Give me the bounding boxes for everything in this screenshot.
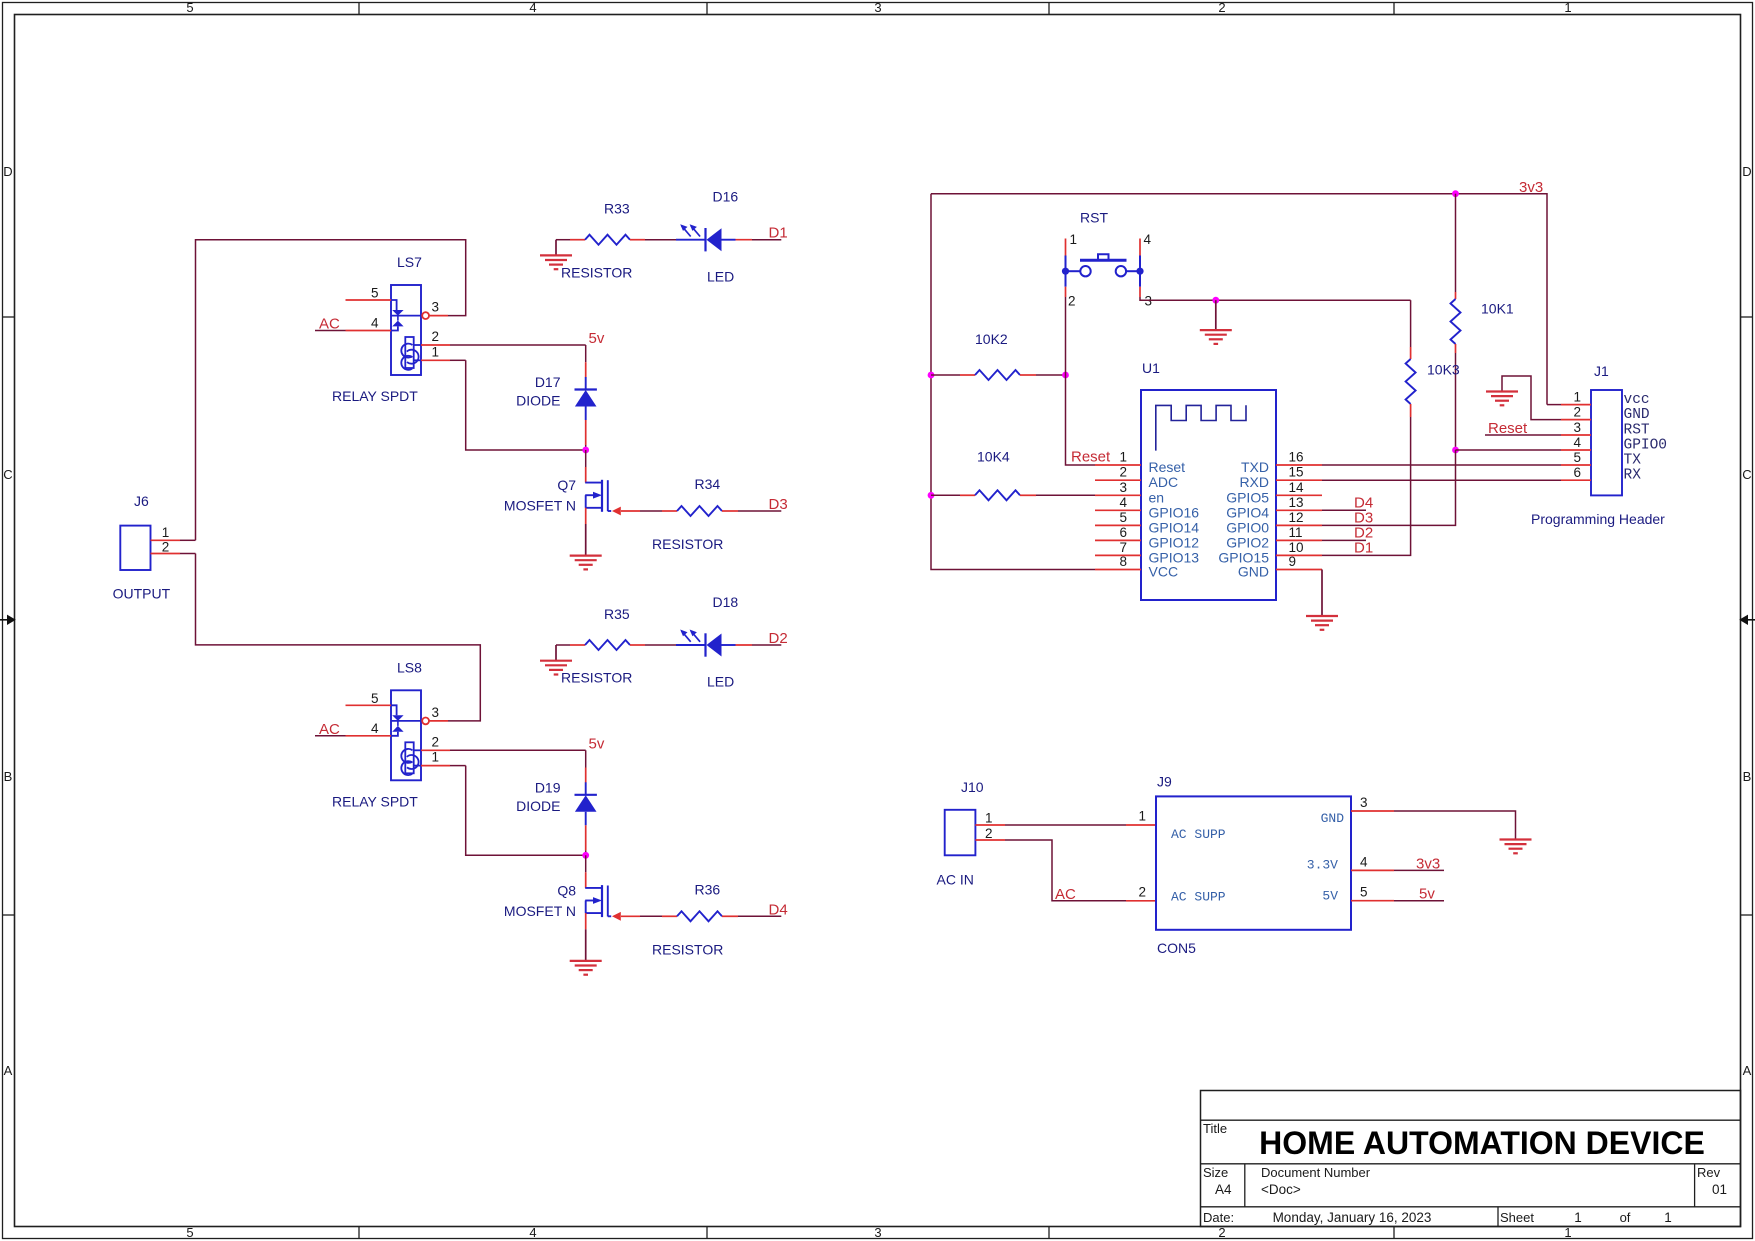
- svg-text:3: 3: [874, 0, 881, 15]
- svg-text:3: 3: [1119, 480, 1127, 495]
- svg-text:GPIO0: GPIO0: [1226, 519, 1269, 535]
- svg-text:Reset: Reset: [1149, 459, 1186, 475]
- svg-text:15: 15: [1289, 465, 1304, 480]
- svg-text:RESISTOR: RESISTOR: [561, 670, 632, 686]
- svg-text:A: A: [1743, 1063, 1752, 1078]
- svg-text:C: C: [3, 467, 12, 482]
- svg-text:4: 4: [529, 1225, 536, 1240]
- svg-text:U1: U1: [1142, 360, 1160, 376]
- svg-text:10K4: 10K4: [977, 449, 1010, 465]
- svg-text:5v: 5v: [589, 735, 605, 752]
- svg-text:B: B: [1743, 769, 1752, 784]
- svg-text:AC SUPP: AC SUPP: [1171, 890, 1226, 905]
- svg-text:3: 3: [1573, 420, 1581, 435]
- svg-text:MOSFET N: MOSFET N: [504, 498, 576, 514]
- svg-text:ADC: ADC: [1149, 474, 1179, 490]
- svg-text:Q8: Q8: [557, 882, 576, 898]
- svg-text:Reset: Reset: [1488, 420, 1528, 437]
- svg-text:8: 8: [1119, 554, 1127, 569]
- svg-text:R35: R35: [604, 606, 630, 622]
- svg-text:TX: TX: [1624, 453, 1642, 469]
- svg-text:D16: D16: [713, 189, 739, 205]
- svg-text:GND: GND: [1238, 564, 1269, 580]
- svg-text:3v3: 3v3: [1416, 855, 1440, 872]
- svg-text:2: 2: [432, 734, 440, 749]
- svg-text:OUTPUT: OUTPUT: [113, 586, 171, 602]
- svg-text:5v: 5v: [589, 330, 605, 347]
- svg-text:1: 1: [1138, 809, 1146, 824]
- svg-text:01: 01: [1712, 1182, 1727, 1197]
- svg-text:5: 5: [371, 691, 379, 706]
- svg-text:HOME AUTOMATION DEVICE: HOME AUTOMATION DEVICE: [1259, 1125, 1705, 1161]
- svg-text:10K3: 10K3: [1427, 362, 1460, 378]
- svg-text:D1: D1: [1354, 540, 1373, 557]
- svg-text:RST: RST: [1080, 210, 1108, 226]
- svg-text:Sheet: Sheet: [1500, 1210, 1534, 1225]
- svg-text:5: 5: [1573, 450, 1581, 465]
- svg-text:4: 4: [1119, 495, 1127, 510]
- svg-text:GPIO16: GPIO16: [1149, 504, 1200, 520]
- svg-text:en: en: [1149, 489, 1165, 505]
- svg-text:of: of: [1620, 1210, 1631, 1225]
- svg-text:4: 4: [371, 721, 379, 736]
- svg-text:C: C: [1742, 467, 1751, 482]
- svg-text:A: A: [4, 1063, 13, 1078]
- svg-text:4: 4: [1360, 854, 1368, 869]
- svg-text:3: 3: [1145, 294, 1153, 309]
- svg-text:D19: D19: [535, 779, 561, 795]
- svg-text:DIODE: DIODE: [516, 798, 560, 814]
- svg-text:1: 1: [985, 811, 993, 826]
- svg-text:3: 3: [432, 300, 440, 315]
- svg-text:2: 2: [1119, 465, 1127, 480]
- svg-text:10K2: 10K2: [975, 331, 1008, 347]
- svg-text:GPIO5: GPIO5: [1226, 489, 1269, 505]
- svg-text:AC IN: AC IN: [937, 872, 974, 888]
- svg-text:3: 3: [874, 1225, 881, 1240]
- svg-text:1: 1: [432, 344, 440, 359]
- svg-text:RELAY SPDT: RELAY SPDT: [332, 793, 418, 809]
- svg-text:5v: 5v: [1419, 886, 1435, 903]
- svg-text:7: 7: [1119, 540, 1127, 555]
- svg-text:VCC: VCC: [1149, 564, 1179, 580]
- svg-text:2: 2: [1573, 405, 1581, 420]
- svg-text:2: 2: [1068, 294, 1076, 309]
- svg-text:6: 6: [1573, 465, 1581, 480]
- svg-text:CON5: CON5: [1157, 940, 1196, 956]
- svg-text:GPIO0: GPIO0: [1624, 438, 1668, 454]
- svg-text:RESISTOR: RESISTOR: [652, 941, 723, 957]
- svg-text:5V: 5V: [1322, 888, 1338, 903]
- svg-text:LS7: LS7: [397, 254, 422, 270]
- svg-text:GND: GND: [1321, 811, 1345, 826]
- svg-text:2: 2: [432, 329, 440, 344]
- svg-text:4: 4: [1573, 435, 1581, 450]
- svg-text:3: 3: [432, 705, 440, 720]
- svg-text:GPIO12: GPIO12: [1149, 534, 1200, 550]
- svg-text:D17: D17: [535, 374, 561, 390]
- svg-text:LED: LED: [707, 268, 734, 284]
- svg-text:B: B: [4, 769, 13, 784]
- svg-text:vcc: vcc: [1624, 392, 1650, 408]
- svg-text:R34: R34: [695, 476, 721, 492]
- svg-text:12: 12: [1289, 510, 1304, 525]
- svg-text:RX: RX: [1624, 468, 1642, 484]
- svg-text:13: 13: [1289, 495, 1304, 510]
- svg-text:MOSFET N: MOSFET N: [504, 903, 576, 919]
- svg-text:GPIO2: GPIO2: [1226, 534, 1269, 550]
- svg-text:1: 1: [432, 750, 440, 765]
- svg-text:1: 1: [1573, 390, 1581, 405]
- svg-text:RESISTOR: RESISTOR: [561, 264, 632, 280]
- svg-text:RST: RST: [1624, 423, 1650, 439]
- svg-text:14: 14: [1289, 480, 1305, 495]
- svg-text:Reset: Reset: [1071, 449, 1111, 466]
- svg-text:4: 4: [371, 316, 379, 331]
- svg-text:5: 5: [1119, 510, 1127, 525]
- svg-text:DIODE: DIODE: [516, 393, 560, 409]
- svg-text:R33: R33: [604, 201, 630, 217]
- svg-text:<Doc>: <Doc>: [1261, 1182, 1301, 1197]
- svg-text:RXD: RXD: [1239, 474, 1269, 490]
- svg-text:1: 1: [1574, 1210, 1582, 1225]
- svg-text:D2: D2: [769, 630, 788, 647]
- svg-text:D3: D3: [769, 496, 788, 513]
- svg-text:Size: Size: [1203, 1165, 1228, 1180]
- svg-text:3v3: 3v3: [1519, 179, 1543, 196]
- svg-text:3: 3: [1360, 795, 1368, 810]
- svg-text:R36: R36: [695, 881, 721, 897]
- svg-text:1: 1: [162, 525, 170, 540]
- svg-text:9: 9: [1289, 554, 1297, 569]
- svg-text:10: 10: [1289, 540, 1304, 555]
- svg-text:GND: GND: [1624, 407, 1650, 423]
- svg-text:D4: D4: [769, 901, 788, 918]
- svg-text:10K1: 10K1: [1481, 301, 1514, 317]
- svg-text:D: D: [1742, 164, 1751, 179]
- svg-text:LED: LED: [707, 674, 734, 690]
- svg-text:11: 11: [1289, 525, 1303, 540]
- svg-text:Programming Header: Programming Header: [1531, 511, 1665, 527]
- svg-text:2: 2: [1138, 884, 1146, 899]
- svg-text:J6: J6: [134, 493, 149, 509]
- svg-text:5: 5: [186, 1225, 193, 1240]
- svg-text:LS8: LS8: [397, 659, 422, 675]
- svg-text:GPIO14: GPIO14: [1149, 519, 1200, 535]
- svg-text:2: 2: [1218, 0, 1225, 15]
- svg-text:2: 2: [162, 540, 170, 555]
- svg-text:1: 1: [1119, 450, 1127, 465]
- svg-text:Q7: Q7: [557, 477, 576, 493]
- svg-text:D: D: [3, 164, 12, 179]
- svg-text:GPIO4: GPIO4: [1226, 504, 1269, 520]
- svg-text:Date:: Date:: [1203, 1210, 1234, 1225]
- svg-text:D18: D18: [713, 594, 739, 610]
- svg-text:J10: J10: [961, 779, 984, 795]
- svg-text:3.3V: 3.3V: [1307, 857, 1338, 872]
- svg-text:5: 5: [1360, 885, 1368, 900]
- svg-text:J9: J9: [1157, 774, 1172, 790]
- svg-text:D1: D1: [769, 225, 788, 242]
- svg-text:2: 2: [985, 826, 993, 841]
- svg-text:1: 1: [1564, 0, 1571, 15]
- svg-text:A4: A4: [1215, 1182, 1232, 1197]
- svg-text:J1: J1: [1594, 363, 1609, 379]
- svg-text:RELAY SPDT: RELAY SPDT: [332, 388, 418, 404]
- svg-text:1: 1: [1070, 232, 1078, 247]
- svg-text:RESISTOR: RESISTOR: [652, 536, 723, 552]
- svg-text:1: 1: [1664, 1210, 1672, 1225]
- svg-text:16: 16: [1289, 450, 1304, 465]
- svg-text:Rev: Rev: [1697, 1165, 1721, 1180]
- svg-text:5: 5: [371, 286, 379, 301]
- svg-text:4: 4: [1144, 232, 1152, 247]
- svg-text:AC: AC: [1055, 886, 1076, 903]
- svg-text:Document Number: Document Number: [1261, 1165, 1371, 1180]
- svg-text:AC: AC: [319, 316, 340, 333]
- svg-text:Title: Title: [1203, 1121, 1227, 1136]
- svg-text:4: 4: [529, 0, 536, 15]
- svg-text:AC: AC: [319, 721, 340, 738]
- svg-text:Monday, January 16, 2023: Monday, January 16, 2023: [1273, 1210, 1432, 1225]
- svg-text:AC SUPP: AC SUPP: [1171, 827, 1226, 842]
- svg-text:6: 6: [1119, 525, 1127, 540]
- svg-text:5: 5: [186, 0, 193, 15]
- svg-text:TXD: TXD: [1241, 459, 1269, 475]
